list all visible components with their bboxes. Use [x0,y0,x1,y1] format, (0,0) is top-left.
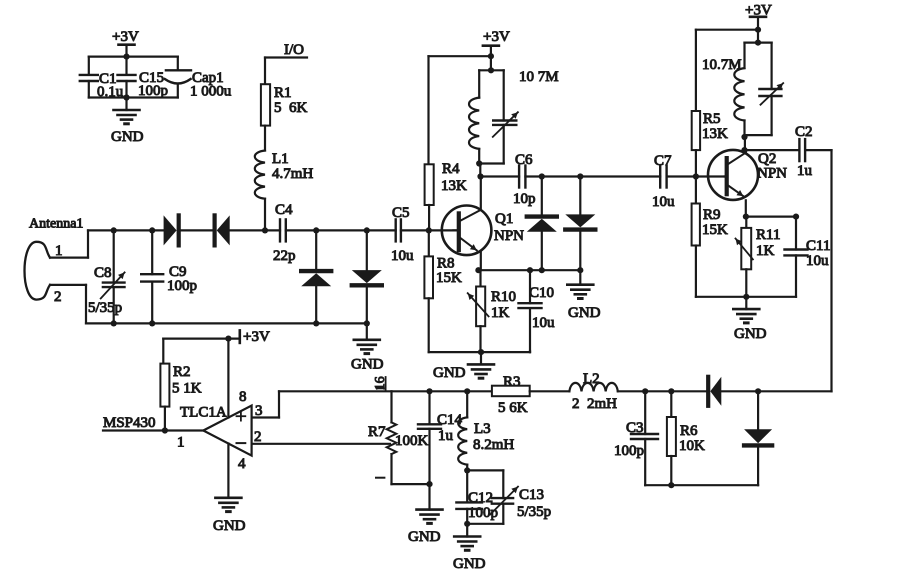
svg-text:8.2mH: 8.2mH [473,437,514,453]
svg-text:C13: C13 [519,487,544,503]
svg-text:10 7M: 10 7M [519,69,559,85]
svg-text:1u: 1u [438,428,454,444]
svg-text:5 6K: 5 6K [498,400,528,416]
svg-text:1K: 1K [756,243,775,259]
svg-text:1u: 1u [797,163,813,179]
svg-text:R5: R5 [703,111,721,127]
svg-text:1: 1 [55,243,63,259]
svg-text:C11: C11 [806,238,830,254]
svg-text:+3V: +3V [112,29,139,45]
svg-text:1K: 1K [491,305,510,321]
svg-text:100p: 100p [614,443,644,459]
svg-text:R10: R10 [491,289,516,305]
svg-text:0.1u: 0.1u [97,84,124,100]
svg-text:1 000u: 1 000u [190,84,232,100]
svg-text:22p: 22p [273,248,296,264]
svg-text:100p: 100p [167,278,197,294]
svg-text:GND: GND [213,518,246,534]
svg-text:5 6K: 5 6K [274,100,308,116]
svg-text:C6: C6 [515,152,533,168]
svg-text:C5: C5 [392,205,410,221]
svg-text:L3: L3 [474,421,491,437]
svg-text:R9: R9 [703,207,721,223]
svg-text:R1: R1 [274,85,292,101]
svg-text:10u: 10u [652,194,675,210]
svg-text:8: 8 [239,389,247,405]
svg-text:TLC1A: TLC1A [180,405,227,421]
svg-text:GND: GND [351,357,384,373]
svg-text:C7: C7 [654,153,672,169]
svg-text:GND: GND [568,305,601,321]
svg-text:L1: L1 [272,151,289,167]
svg-text:10K: 10K [679,438,705,454]
svg-text:C2: C2 [795,124,813,140]
svg-text:R6: R6 [680,423,698,439]
svg-text:R3: R3 [503,374,521,390]
svg-text:15K: 15K [436,270,462,286]
svg-text:Antenna1: Antenna1 [29,217,83,232]
svg-text:2: 2 [54,289,62,305]
svg-text:GND: GND [408,529,441,545]
svg-text:10u: 10u [391,248,414,264]
svg-text:GND: GND [111,129,144,145]
svg-text:I/O: I/O [284,42,304,58]
svg-text:GND: GND [453,556,486,572]
svg-text:100p: 100p [138,83,168,99]
svg-text:10p: 10p [513,191,536,207]
svg-text:NPN: NPN [757,166,787,182]
svg-text:GND: GND [433,365,466,381]
svg-text:15K: 15K [702,222,728,238]
svg-text:C3: C3 [626,420,644,436]
svg-text:5 1K: 5 1K [172,381,202,397]
svg-text:GND: GND [734,326,767,342]
svg-text:+3V: +3V [243,329,270,345]
svg-text:C10: C10 [529,285,554,301]
svg-text:5/35p: 5/35p [517,504,551,520]
svg-text:4: 4 [238,456,246,472]
svg-text:13K: 13K [441,178,467,194]
svg-text:+3V: +3V [483,29,510,45]
svg-text:1: 1 [177,435,185,451]
svg-text:2 2mH: 2 2mH [572,396,617,412]
svg-text:C8: C8 [94,265,112,281]
svg-text:R7: R7 [368,424,386,440]
svg-text:Q1: Q1 [495,211,513,227]
svg-text:R2: R2 [173,364,191,380]
svg-text:L2: L2 [583,371,600,387]
svg-text:2: 2 [254,429,262,445]
svg-text:13K: 13K [702,126,728,142]
svg-text:5/35p: 5/35p [88,300,122,316]
svg-text:10u: 10u [806,253,829,269]
svg-text:3: 3 [255,403,263,419]
svg-text:C4: C4 [275,202,293,218]
svg-text:100K: 100K [395,433,429,449]
svg-text:R4: R4 [442,161,460,177]
svg-text:R11: R11 [756,227,780,243]
svg-text:NPN: NPN [494,228,524,244]
svg-text:4.7mH: 4.7mH [272,166,313,182]
svg-text:C12: C12 [468,490,493,506]
svg-text:100p: 100p [468,505,498,521]
svg-text:MSP430: MSP430 [103,415,156,431]
svg-text:10u: 10u [532,315,555,331]
